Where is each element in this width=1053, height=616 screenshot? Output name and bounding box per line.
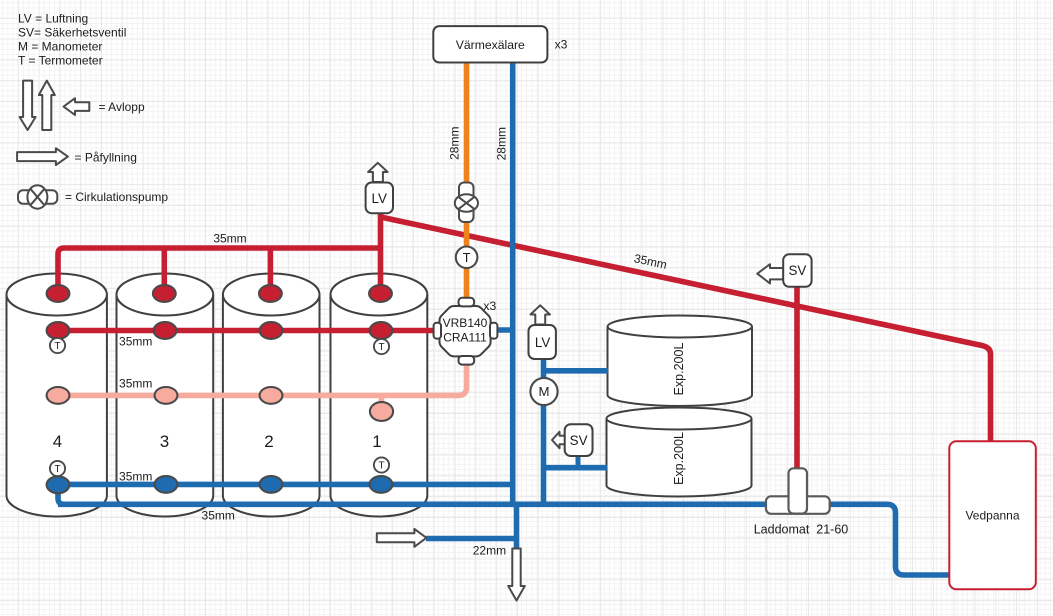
node tank4 cold port [47, 476, 70, 493]
svg-text:CRA111: CRA111 [443, 330, 487, 344]
node tank3 mid port [155, 387, 178, 404]
svg-text:35mm: 35mm [213, 231, 246, 245]
node tank2 hot port [260, 322, 283, 339]
wire: blue bottom main 35mm to Vedpanna [58, 504, 950, 575]
svg-text:SV= Säkerhetsventil: SV= Säkerhetsventil [18, 26, 126, 40]
svg-text:28mm: 28mm [494, 127, 508, 160]
node tank3 hot port [154, 322, 177, 339]
expansion tank Exp.200L upper [608, 316, 753, 407]
wire: blue cold row 35mm [58, 482, 513, 488]
node tank3 top port [153, 285, 176, 302]
svg-text:35mm: 35mm [119, 470, 152, 484]
svg-text:T: T [54, 341, 60, 352]
wire: red hot row 35mm to valve [58, 328, 434, 334]
svg-text:= Cirkulationspump: = Cirkulationspump [65, 190, 168, 204]
wire: blue fill line 22mm [426, 536, 517, 542]
wire: blue elbow tank4 down [58, 484, 64, 504]
legend up arrow [39, 81, 55, 130]
wire: blue pipe to Exp tank 1 [544, 368, 609, 374]
svg-text:Vedpanna: Vedpanna [965, 508, 1019, 522]
tank 3 cylinder [117, 274, 214, 517]
svg-text:35mm: 35mm [202, 508, 235, 522]
wire: blue SV2 stub [576, 455, 581, 468]
svg-text:VRB140: VRB140 [443, 316, 488, 330]
svg-text:3: 3 [160, 432, 169, 451]
svg-text:LV: LV [372, 191, 387, 206]
svg-text:SV: SV [788, 263, 806, 278]
svg-text:LV: LV [535, 335, 550, 350]
svg-text:Exp.200L: Exp.200L [672, 432, 686, 485]
node tank4 hot port [47, 322, 70, 339]
svg-text:SV: SV [570, 433, 588, 448]
drain arrow down 22mm [508, 549, 525, 601]
svg-text:T: T [378, 461, 384, 472]
node tank1 top port [369, 285, 392, 302]
svg-text:35mm: 35mm [119, 377, 152, 391]
svg-text:Värmexälare: Värmexälare [456, 38, 525, 52]
wire: red vertical SV1 to Laddomat [794, 287, 800, 470]
svg-text:Laddomat 21-60: Laddomat 21-60 [754, 523, 849, 537]
legend left arrow avlopp [64, 98, 90, 115]
wire: blue LV2/M vertical [541, 360, 547, 504]
svg-text:M = Manometer: M = Manometer [18, 39, 102, 53]
boiler Vedpanna box [949, 441, 1036, 589]
svg-text:T: T [54, 464, 60, 475]
svg-text:35mm: 35mm [633, 251, 669, 272]
node tank1 hot port [370, 322, 393, 339]
wire: red top manifold 35mm [58, 248, 381, 294]
pump on orange pipe [455, 183, 478, 223]
svg-text:28mm: 28mm [448, 127, 462, 160]
safety valve SV1 box [757, 254, 811, 286]
fill arrow (påfyllning) at bottom [377, 529, 427, 547]
wire: pink return pipe to valve bottom [58, 362, 467, 395]
legend down arrow [20, 81, 36, 130]
wire: red drop to tank2 top port [268, 248, 274, 294]
node tank2 cold port [260, 476, 283, 493]
wire: red vertical LV1 to tank1 top port [378, 213, 384, 294]
node tank1 mid port [370, 402, 393, 421]
Laddomat T fitting [766, 468, 830, 514]
tank 1 cylinder [331, 274, 428, 517]
node tank2 top port [259, 285, 282, 302]
valve VRB140 CRA111 [434, 298, 498, 365]
tank 4 cylinder [7, 274, 107, 517]
node tank4 mid port [47, 387, 70, 404]
wire: pink stub to tank1 port [379, 395, 385, 405]
svg-text:2: 2 [264, 432, 273, 451]
node tank3 cold port [155, 476, 178, 493]
wire: blue valve right connector [496, 327, 513, 333]
wire: red drop to tank3 top port [162, 248, 168, 294]
svg-text:M: M [539, 384, 550, 399]
svg-text:Exp.200L: Exp.200L [672, 343, 686, 396]
svg-text:T = Termometer: T = Termometer [18, 53, 103, 67]
PORTS [47, 285, 394, 493]
svg-text:35mm: 35mm [119, 334, 152, 348]
legend right arrow påfyllning [17, 148, 68, 165]
expansion tank Exp.200L lower [607, 408, 752, 497]
svg-text:= Påfyllning: = Påfyllning [75, 150, 137, 164]
thermometer T tank4 upper [50, 338, 65, 353]
wire: red diagonal 35mm to Vedpanna [381, 217, 991, 442]
thermometer T tank1 lower [374, 457, 389, 472]
wire: blue pipe to Exp tank 2 [544, 465, 608, 471]
tank 2 cylinder [223, 274, 320, 517]
thermometer T tank1 upper [374, 339, 389, 354]
node tank1 cold port [370, 476, 393, 493]
svg-text:T: T [378, 342, 384, 353]
wire: blue 28mm vertical from Värmexälare [510, 62, 516, 504]
svg-text:= Avlopp: = Avlopp [99, 100, 145, 114]
node tank2 mid port [260, 387, 283, 404]
manometer M [530, 378, 557, 405]
safety valve SV2 box [552, 424, 593, 456]
legend pump [18, 185, 57, 208]
svg-text:4: 4 [53, 432, 62, 451]
vent LV2 box [529, 305, 556, 359]
svg-text:22mm: 22mm [473, 543, 506, 557]
node tank4 top port [47, 285, 70, 302]
vent LV1 box [366, 163, 393, 213]
svg-text:1: 1 [372, 432, 381, 451]
svg-text:x3: x3 [483, 299, 496, 313]
thermometer T on orange pipe [456, 246, 478, 268]
wire: blue drain drop [514, 504, 520, 550]
svg-text:LV = Luftning: LV = Luftning [18, 12, 88, 26]
wire: orange 28mm from Värmexälare to valve top [464, 62, 470, 299]
svg-text:x3: x3 [555, 38, 568, 52]
svg-text:T: T [463, 251, 471, 265]
thermometer T tank4 lower [50, 461, 65, 476]
heat exchanger Värmexälare box [433, 26, 547, 62]
